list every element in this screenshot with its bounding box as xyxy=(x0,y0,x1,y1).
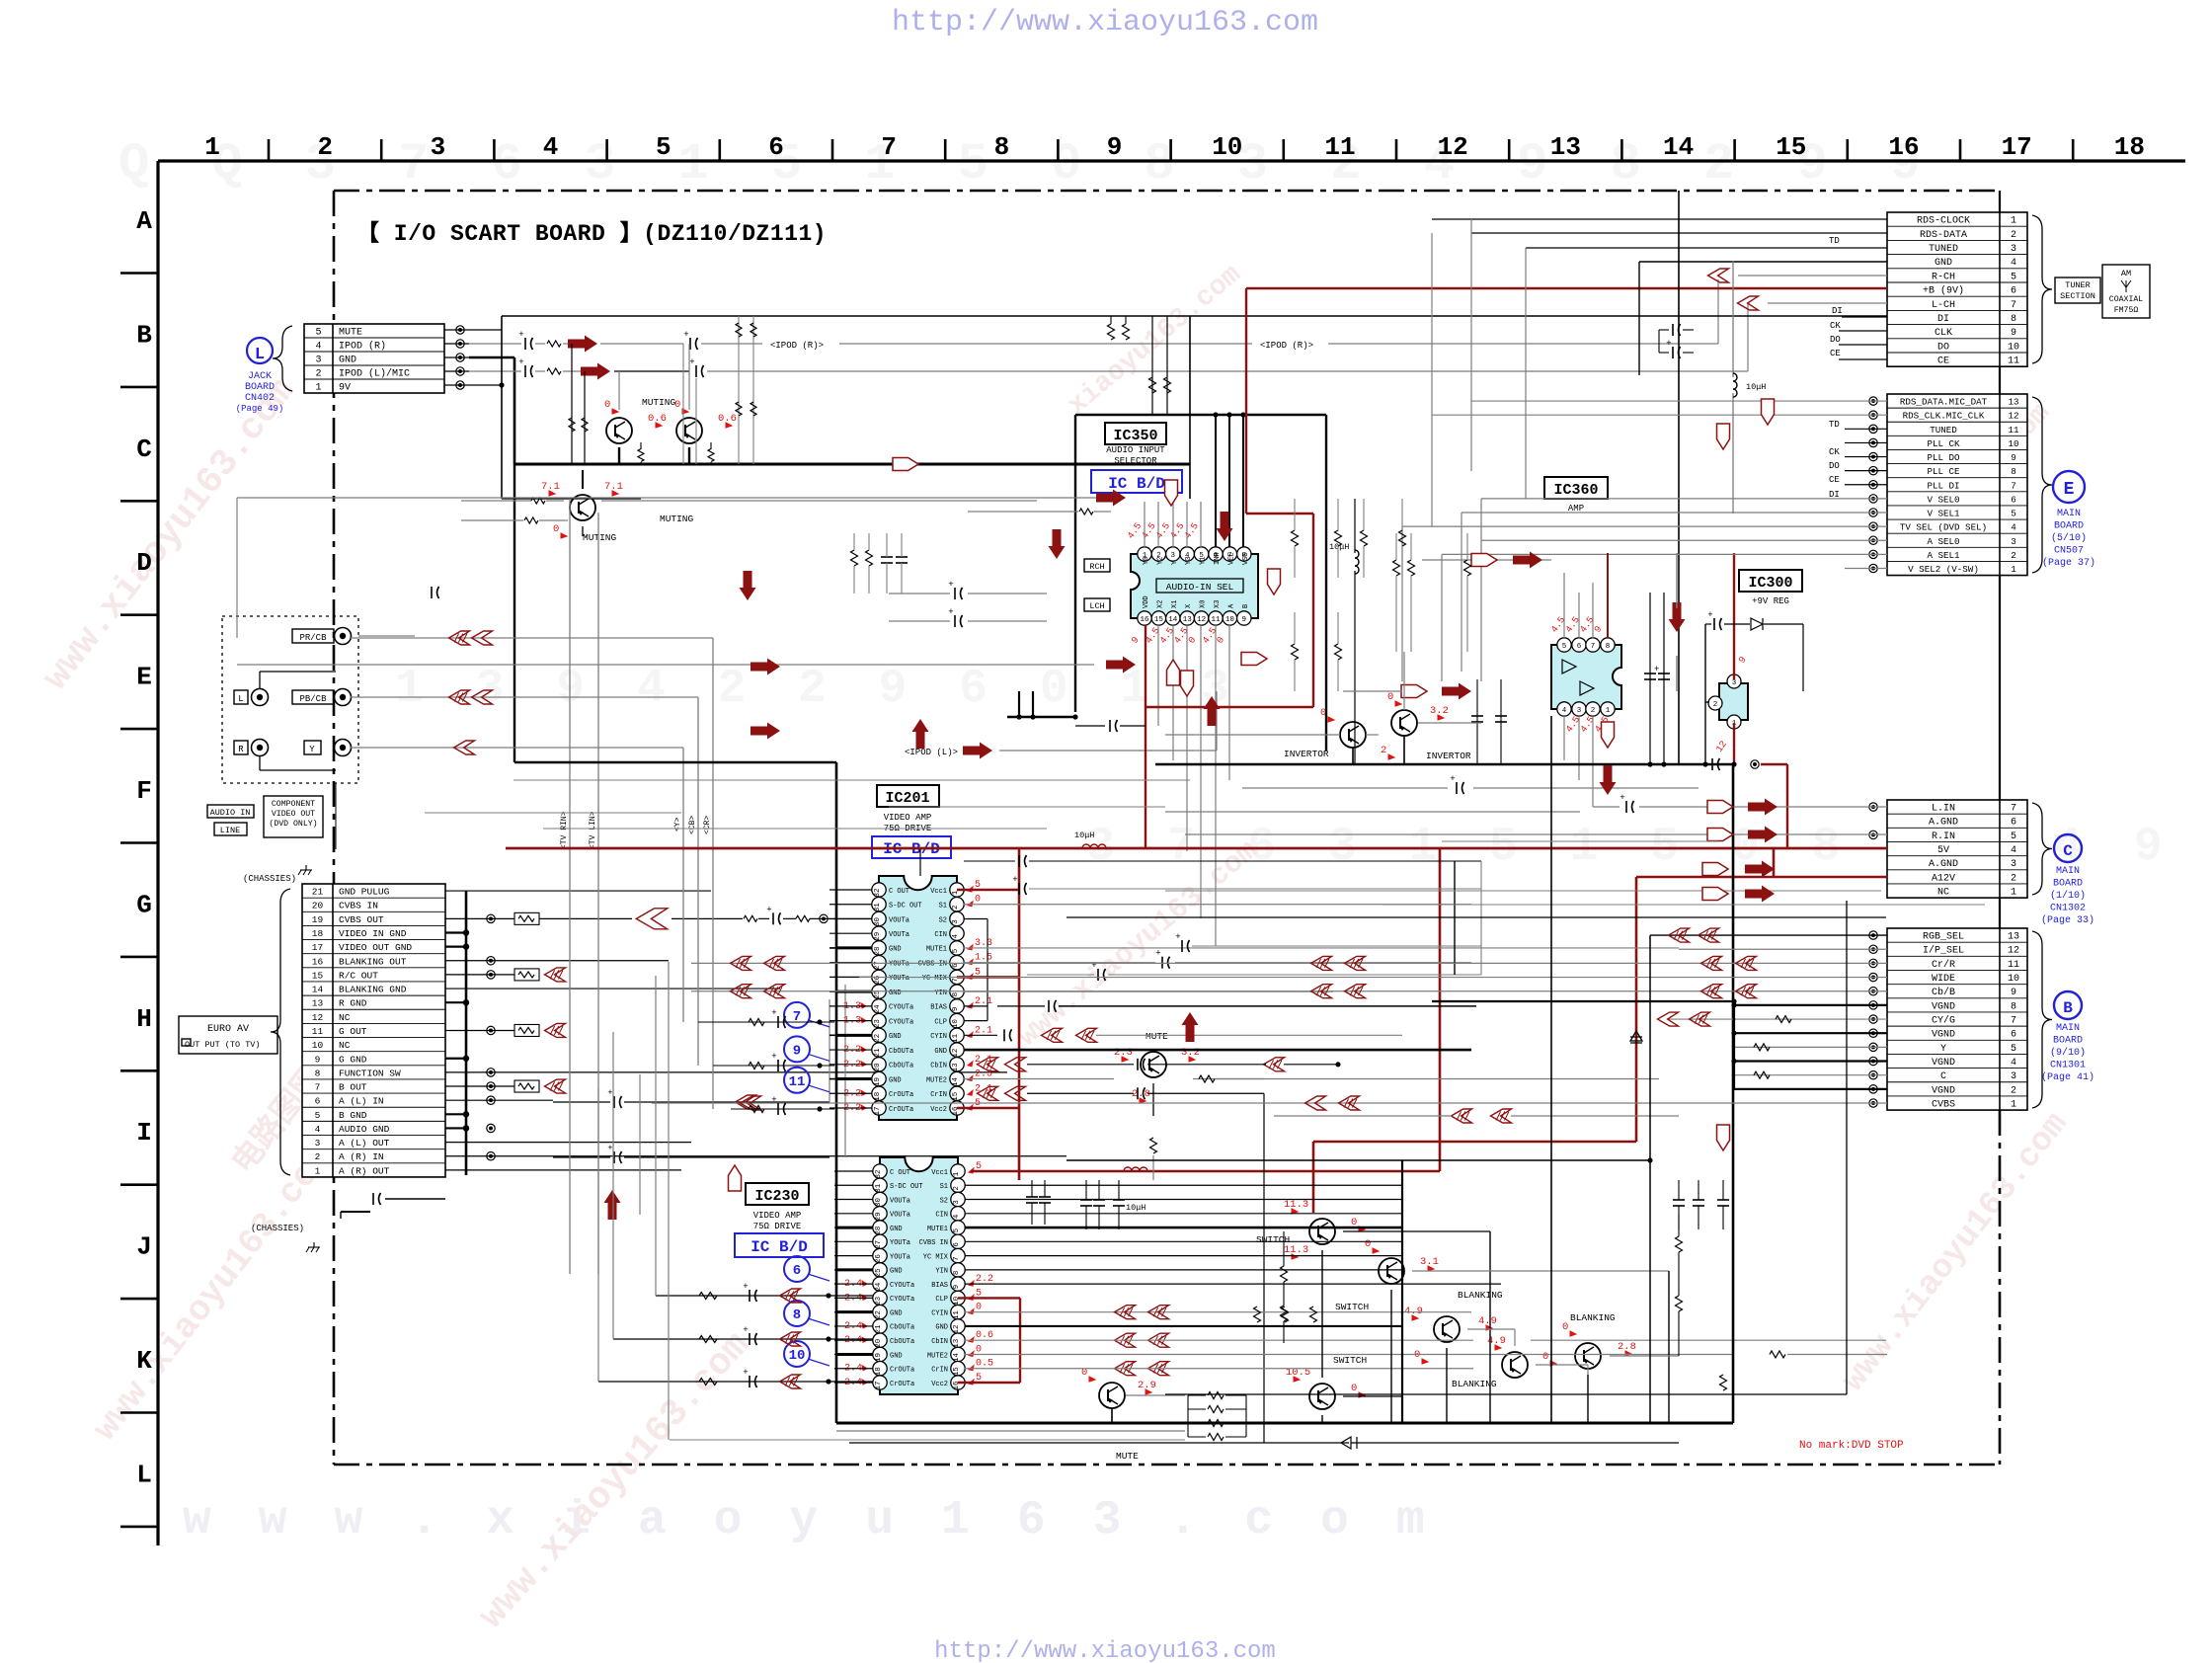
svg-text:11: 11 xyxy=(2008,356,2019,367)
svg-text:CE: CE xyxy=(1937,356,1949,367)
wire xyxy=(1668,1271,1670,1423)
svg-text:AUDIO GND: AUDIO GND xyxy=(339,1124,390,1135)
IC350 pin 3 xyxy=(1166,547,1180,561)
svg-text:+9V REG: +9V REG xyxy=(1752,596,1789,606)
svg-text:CbOUTa: CbOUTa xyxy=(890,1324,914,1332)
arrow chevron xyxy=(1305,1096,1326,1110)
svg-text:5: 5 xyxy=(2011,1044,2016,1055)
pointer xyxy=(729,1165,742,1191)
wire t2 r4 xyxy=(1402,525,1887,527)
resistor xyxy=(851,550,858,566)
IC350 pin 11 xyxy=(1209,611,1223,625)
svg-text:+: + xyxy=(1155,949,1160,959)
board frame right solid xyxy=(1999,191,2001,928)
svg-text:TUNED: TUNED xyxy=(1929,244,1958,255)
wire mute row xyxy=(469,329,502,331)
svg-text:YOUTa: YOUTa xyxy=(889,960,909,968)
svg-text:+B (9V): +B (9V) xyxy=(1923,285,1964,297)
ruler tick xyxy=(1395,139,1398,161)
svg-text:8: 8 xyxy=(953,1271,961,1276)
wire xyxy=(1343,1230,1490,1232)
svg-text:(5/10): (5/10) xyxy=(2051,532,2087,544)
svg-text:www.xiaoyu163.com: www.xiaoyu163.com xyxy=(183,1494,1472,1547)
wire xyxy=(965,1283,1501,1285)
svg-text:13: 13 xyxy=(2008,397,2018,408)
resistor xyxy=(582,418,588,432)
junction ring xyxy=(487,971,495,979)
wire xyxy=(1500,679,1502,765)
svg-text:(CHASSIES): (CHASSIES) xyxy=(243,874,296,884)
wire lch xyxy=(237,664,1094,666)
resistor xyxy=(796,915,810,921)
svg-text:11.3: 11.3 xyxy=(1284,1199,1308,1211)
svg-text:A12V: A12V xyxy=(1932,873,1955,884)
svg-text:1: 1 xyxy=(2011,888,2016,899)
arrow chevron xyxy=(1264,1058,1285,1071)
svg-text:<TV LIN>: <TV LIN> xyxy=(589,811,597,849)
svg-text:LINE: LINE xyxy=(220,826,240,835)
wire xyxy=(853,533,855,550)
svg-text:0: 0 xyxy=(1365,1238,1371,1250)
resistor xyxy=(736,402,742,416)
wire xyxy=(1390,1290,1392,1423)
svg-text:4: 4 xyxy=(953,1214,961,1219)
wire xyxy=(601,500,1037,502)
svg-text:11: 11 xyxy=(789,1074,806,1090)
wire right vert thick xyxy=(1732,764,1735,1423)
svg-text:NC: NC xyxy=(1937,888,1949,899)
svg-text:BLANKING: BLANKING xyxy=(1458,1290,1503,1301)
svg-text:14: 14 xyxy=(1663,132,1694,162)
regulator IC300 body xyxy=(1719,683,1748,720)
capacitor xyxy=(1093,1199,1105,1201)
wire xyxy=(1120,725,1145,727)
arrow solid xyxy=(581,363,610,380)
capacitor xyxy=(1672,347,1674,358)
junction xyxy=(463,1111,469,1117)
wire low 798 xyxy=(1242,787,1448,789)
label IC230 box xyxy=(746,1183,809,1205)
svg-text:CrOUTa: CrOUTa xyxy=(890,1367,914,1375)
transistor Q xyxy=(1379,1258,1404,1284)
ruler tick xyxy=(944,139,947,161)
svg-text:TD: TD xyxy=(1829,420,1840,430)
IC350 pin 7 xyxy=(1223,547,1236,561)
svg-text:16: 16 xyxy=(1140,616,1149,624)
IC350 pin 9 xyxy=(1237,611,1251,625)
svg-text:CVBS OUT: CVBS OUT xyxy=(339,914,384,925)
svg-text:8: 8 xyxy=(994,132,1010,162)
svg-text:VDD: VDD xyxy=(1143,595,1150,608)
svg-text:A (R) OUT: A (R) OUT xyxy=(339,1165,390,1176)
transistor drop verticals xyxy=(571,344,573,464)
svg-text:3: 3 xyxy=(2011,536,2016,547)
svg-text:IC B/D: IC B/D xyxy=(1108,475,1165,493)
resistor xyxy=(514,912,539,924)
svg-text:http://www.xiaoyu163.com: http://www.xiaoyu163.com xyxy=(892,6,1318,40)
wire gnd stub xyxy=(836,1077,872,1080)
IC230 pin 14 xyxy=(951,1347,965,1361)
wire xyxy=(1186,625,1188,851)
svg-text:MUTE: MUTE xyxy=(1116,1451,1139,1462)
svg-text:2: 2 xyxy=(2011,230,2016,241)
arrow chevron xyxy=(978,1058,998,1071)
svg-text:21: 21 xyxy=(312,887,324,898)
svg-text:BOARD: BOARD xyxy=(2054,521,2084,532)
wire xyxy=(829,1092,872,1094)
capacitor xyxy=(1161,957,1163,969)
IC201 pin 23 xyxy=(872,1013,886,1027)
wire xyxy=(1563,716,1565,760)
junction ring xyxy=(487,1026,495,1034)
ruler tick xyxy=(605,139,608,161)
svg-text:BLANKING OUT: BLANKING OUT xyxy=(339,956,407,967)
wire t2 r9 xyxy=(1845,456,1887,458)
wire xyxy=(1217,1078,1264,1080)
wire xyxy=(1649,935,1651,1423)
svg-text:5: 5 xyxy=(2011,831,2016,842)
svg-text:IC B/D: IC B/D xyxy=(750,1238,808,1256)
IC350 pin 16 xyxy=(1138,611,1151,625)
svg-text:http://www.xiaoyu163.com: http://www.xiaoyu163.com xyxy=(934,1638,1276,1663)
transistor Q xyxy=(1502,1352,1528,1378)
wire xyxy=(582,526,584,536)
resistor xyxy=(1150,1138,1157,1153)
svg-text:6: 6 xyxy=(315,1096,321,1107)
junction xyxy=(1647,761,1652,766)
svg-text:CrOUTa: CrOUTa xyxy=(890,1381,914,1388)
wire xyxy=(445,1029,514,1031)
svg-text:(9/10): (9/10) xyxy=(2050,1047,2086,1059)
wire t2 r2 xyxy=(1442,553,1887,555)
wire pass 916 xyxy=(1382,904,1985,906)
resistor xyxy=(547,341,561,347)
svg-text:18: 18 xyxy=(874,1092,882,1101)
svg-text:11: 11 xyxy=(953,1310,961,1320)
IC230 pin 16 xyxy=(951,1376,965,1389)
wire xyxy=(829,1064,872,1066)
svg-text:+: + xyxy=(607,1144,612,1153)
wire xyxy=(1401,526,1403,681)
wire xyxy=(535,370,545,372)
svg-text:R GND: R GND xyxy=(339,998,367,1009)
wire muting gnd bus thick xyxy=(514,463,1190,466)
svg-text:19: 19 xyxy=(875,1353,883,1362)
wire xyxy=(964,1005,987,1007)
svg-text:20: 20 xyxy=(874,1063,882,1072)
svg-text:Y2: Y2 xyxy=(1156,557,1164,565)
svg-text:14: 14 xyxy=(312,985,324,995)
wire t1 r8 xyxy=(1842,316,1887,318)
arrow chevron xyxy=(736,1095,756,1109)
IC201 pin 22 xyxy=(872,1028,886,1042)
svg-text:CVBS: CVBS xyxy=(1932,1100,1955,1111)
wire right frame vert xyxy=(1846,901,1848,1394)
capacitor xyxy=(1456,782,1458,794)
svg-text:13: 13 xyxy=(2008,932,2019,943)
IC201 pin 15 xyxy=(950,1086,964,1100)
svg-text:VOUTa: VOUTa xyxy=(889,916,909,924)
resistor xyxy=(750,323,756,337)
wire xyxy=(1717,279,1719,344)
svg-text:6: 6 xyxy=(2011,1030,2016,1041)
svg-text:+: + xyxy=(743,1325,748,1335)
IC201 pin 32 xyxy=(872,883,886,897)
svg-text:COAXIAL: COAXIAL xyxy=(2109,295,2143,304)
wire xyxy=(461,519,523,521)
capacitor xyxy=(954,588,956,599)
svg-text:+: + xyxy=(518,357,523,367)
capacitor xyxy=(1471,715,1483,717)
wire t3 L.IN left xyxy=(1165,811,1580,813)
capacitor xyxy=(1658,673,1670,674)
wire red vert 1796 xyxy=(1773,848,1776,877)
svg-text:8: 8 xyxy=(2011,466,2016,477)
resistor xyxy=(1408,560,1415,576)
wire cvbs out row xyxy=(539,917,632,919)
svg-text:(Page 49): (Page 49) xyxy=(236,404,284,414)
svg-text:27: 27 xyxy=(875,1240,883,1249)
wire xyxy=(965,1311,1471,1313)
IC230 pin 15 xyxy=(951,1362,965,1376)
wire xyxy=(1678,1215,1680,1236)
IC230 pin 2 xyxy=(951,1178,965,1192)
wire red from IC350 xyxy=(1145,625,1146,848)
resistor xyxy=(744,915,757,921)
svg-text:CrOUTa: CrOUTa xyxy=(889,1091,913,1099)
arrow chevron xyxy=(1658,1012,1679,1026)
svg-text:CrIN: CrIN xyxy=(930,1091,947,1099)
wire xyxy=(640,442,642,449)
node B circle xyxy=(2054,991,2082,1019)
label R xyxy=(234,741,248,754)
svg-text:CK: CK xyxy=(1829,447,1840,457)
IC350 pin 13 xyxy=(1180,611,1194,625)
ruler tick xyxy=(493,139,496,161)
wire xyxy=(1418,722,1481,724)
resistor xyxy=(749,1019,764,1026)
IC201 pin 19 xyxy=(872,1071,886,1085)
svg-text:VGND: VGND xyxy=(1932,1058,1955,1069)
svg-text:31: 31 xyxy=(874,903,882,912)
svg-text:JACK: JACK xyxy=(248,371,272,382)
capacitor xyxy=(881,556,893,558)
svg-text:0.5: 0.5 xyxy=(976,1359,993,1370)
row tick xyxy=(120,1069,158,1072)
svg-text:VOUTa: VOUTa xyxy=(890,1212,910,1220)
wire red ic300 pin3 up xyxy=(1733,553,1735,679)
capacitor xyxy=(695,365,697,377)
svg-text:1: 1 xyxy=(2011,1100,2016,1111)
IC230 pin 13 xyxy=(951,1333,965,1347)
wire xyxy=(1186,502,1188,547)
arrow chevron xyxy=(1701,956,1722,970)
IC350 pin 4 xyxy=(1180,547,1194,561)
arrow chevron west grp2 xyxy=(731,956,751,970)
IC230 pin 29 xyxy=(873,1207,887,1221)
label PB/CB xyxy=(292,690,334,704)
svg-text:SECTION: SECTION xyxy=(2060,291,2095,301)
svg-text:I/P_SEL: I/P_SEL xyxy=(1923,945,1964,957)
svg-text:4: 4 xyxy=(315,1124,321,1135)
wire 9v row xyxy=(469,384,502,386)
svg-text:S-DC OUT: S-DC OUT xyxy=(890,1183,923,1191)
svg-text:+: + xyxy=(1666,339,1671,349)
svg-text:V SEL2 (V-SW): V SEL2 (V-SW) xyxy=(1908,564,1979,575)
svg-text:CY/G: CY/G xyxy=(1932,1015,1955,1027)
board frame right dashdot xyxy=(1999,1110,2002,1465)
wire gnd stub xyxy=(445,946,466,948)
IC300 pin 1 xyxy=(1727,715,1741,729)
wire xyxy=(829,947,872,949)
IC201 pin 2 xyxy=(950,898,964,911)
capacitor xyxy=(777,1016,779,1028)
wire xyxy=(358,635,415,637)
resistor xyxy=(1254,1307,1261,1322)
ruler tick xyxy=(831,139,834,161)
svg-text:AUDIO INPUT: AUDIO INPUT xyxy=(1106,445,1165,455)
wire xyxy=(1216,691,1218,751)
wire xyxy=(236,498,238,638)
IC201 pin 16 xyxy=(950,1101,964,1115)
capacitor xyxy=(1018,855,1020,867)
coil 10uH xyxy=(1124,1167,1147,1171)
svg-text:(CHASSIES): (CHASSIES) xyxy=(251,1224,304,1233)
wire xyxy=(1480,889,1482,975)
resistor xyxy=(1399,530,1406,546)
svg-text:Cr/R: Cr/R xyxy=(1932,959,1955,971)
wire xyxy=(688,344,690,410)
wire xyxy=(1328,343,1718,345)
capacitor xyxy=(1693,1199,1704,1201)
svg-text:CE: CE xyxy=(1830,349,1841,358)
wire xyxy=(834,1213,873,1215)
wire inverter bottom thick xyxy=(1155,763,1734,766)
wire red vert 1657 xyxy=(1635,877,1638,1142)
junction xyxy=(456,326,464,334)
svg-text:OUT PUT (TO TV): OUT PUT (TO TV) xyxy=(185,1040,261,1050)
resistor xyxy=(1335,644,1342,660)
svg-text:0: 0 xyxy=(1542,1351,1548,1363)
svg-text:14: 14 xyxy=(1168,616,1178,624)
svg-text:9: 9 xyxy=(2011,328,2016,339)
junction xyxy=(582,368,587,373)
wire t4 r9 xyxy=(691,990,1887,992)
arrow solid xyxy=(1217,512,1233,541)
arrow chevron xyxy=(1311,956,1332,970)
wire xyxy=(618,371,620,410)
wire xyxy=(849,1442,1349,1444)
svg-text:Y: Y xyxy=(309,745,315,754)
pointer xyxy=(893,458,918,471)
IC360 opamp triangle 1 xyxy=(1562,660,1576,673)
wire xyxy=(964,917,987,919)
op-amp IC360 body xyxy=(1551,645,1621,709)
svg-text:FM75Ω: FM75Ω xyxy=(2114,306,2139,315)
svg-text:CLP: CLP xyxy=(934,1018,947,1026)
wire t4 r7 xyxy=(1669,1018,1887,1020)
pointer xyxy=(1181,671,1194,696)
wire xyxy=(964,947,1679,949)
capacitor xyxy=(749,1333,750,1345)
junction ring xyxy=(1869,1057,1877,1065)
svg-text:VIDEO AMP: VIDEO AMP xyxy=(884,813,932,823)
svg-text:+: + xyxy=(1450,774,1455,784)
junction ring xyxy=(1869,481,1877,489)
label RCH xyxy=(1084,559,1110,572)
svg-text:18: 18 xyxy=(312,928,324,939)
svg-text:9: 9 xyxy=(793,1043,801,1059)
svg-text:SWITCH: SWITCH xyxy=(1333,1355,1367,1366)
wire xyxy=(1189,316,1191,499)
IC350 pin 8 xyxy=(1237,547,1251,561)
svg-text:+: + xyxy=(689,357,694,367)
wire red bus main xyxy=(506,847,1887,850)
svg-text:CYIN: CYIN xyxy=(931,1309,948,1317)
svg-text:CYIN: CYIN xyxy=(930,1033,947,1041)
IC230 pin 5 xyxy=(951,1221,965,1234)
svg-text:BOARD: BOARD xyxy=(245,382,275,393)
svg-text:3: 3 xyxy=(431,132,446,162)
svg-text:GND: GND xyxy=(890,1352,903,1360)
label IC230 IC B/D xyxy=(735,1233,824,1257)
wire xyxy=(829,932,872,934)
svg-text:R.IN: R.IN xyxy=(1932,831,1955,842)
svg-text:3: 3 xyxy=(1171,552,1176,560)
diode xyxy=(1630,1031,1642,1043)
IC360 pin 1 xyxy=(1601,702,1615,716)
ruler tick xyxy=(718,139,721,161)
pointer xyxy=(1702,863,1728,876)
wire black vert xyxy=(1454,861,1456,975)
svg-text:(Page 41): (Page 41) xyxy=(2041,1071,2094,1083)
arrow chevron xyxy=(449,631,470,645)
wire xyxy=(964,990,1333,992)
op-amp IC201 body xyxy=(879,876,957,1120)
connector CN402 jack board table xyxy=(304,324,444,393)
label IC201 box xyxy=(877,785,939,807)
capacitor xyxy=(1039,1196,1051,1198)
wire xyxy=(834,1199,873,1201)
connector CN402 brace xyxy=(273,326,292,391)
wire xyxy=(1284,1064,1338,1066)
svg-text:2: 2 xyxy=(2011,1085,2016,1096)
svg-text:VIDEO OUT: VIDEO OUT xyxy=(272,810,315,819)
wire xyxy=(1467,1328,1515,1330)
svg-text:TV SEL (DVD SEL): TV SEL (DVD SEL) xyxy=(1900,522,1987,533)
svg-text:1: 1 xyxy=(315,1165,321,1176)
svg-text:Y1: Y1 xyxy=(1200,557,1208,565)
wire xyxy=(1187,1395,1189,1437)
svg-text:C: C xyxy=(2063,842,2073,860)
arrow chevron xyxy=(545,968,566,982)
wire y xyxy=(351,747,683,749)
coil 10uH xyxy=(1082,844,1106,848)
row tick xyxy=(120,1183,158,1186)
resistor xyxy=(749,1106,764,1113)
junction xyxy=(826,1293,830,1298)
rca jack xyxy=(335,628,352,645)
wire bottom bus thick xyxy=(836,1422,1733,1425)
svg-text:L-CH: L-CH xyxy=(1932,300,1955,311)
svg-text:7: 7 xyxy=(2011,300,2016,311)
svg-text:9: 9 xyxy=(953,1285,961,1290)
svg-text:15: 15 xyxy=(1154,616,1164,624)
transistor Q xyxy=(1309,1219,1335,1244)
board frame left xyxy=(333,191,336,1465)
svg-text:0: 0 xyxy=(976,1303,982,1313)
svg-text:22: 22 xyxy=(875,1310,883,1319)
